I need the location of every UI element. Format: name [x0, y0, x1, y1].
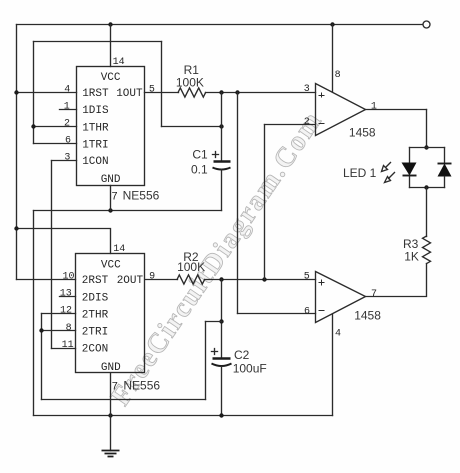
wire LED bridge top rail [410, 147, 445, 149]
wire C1 branch vertical [221, 93, 223, 162]
node junction top rail to U1 pin14 [108, 22, 112, 26]
svg-text:4: 4 [335, 329, 341, 340]
svg-text:1458: 1458 [354, 309, 381, 323]
capacitor C1 [213, 162, 231, 170]
svg-text:10: 10 [63, 272, 75, 283]
svg-text:1458: 1458 [349, 126, 376, 140]
node junction R2 out C2 [219, 277, 223, 281]
wire R2 to op-amp pin5 [205, 279, 316, 281]
wire R3 to op-amp2 output [366, 264, 427, 297]
wire U1 pin5 1OUT to op-amp pin3 [145, 92, 179, 94]
svg-text:7: 7 [112, 382, 119, 394]
resistor R1 [178, 88, 206, 97]
wire CON net vertical [51, 161, 53, 349]
svg-text:GND: GND [101, 362, 121, 374]
wire op-amp1 inverting drop [264, 125, 266, 280]
svg-text:4: 4 [64, 84, 70, 95]
svg-text:NE556: NE556 [123, 379, 160, 393]
wire C2 bottom to ground bus [221, 367, 223, 416]
resistor R2 [177, 275, 205, 284]
wire ground bus bottom [34, 415, 333, 417]
wire U2 pin12 2THR [42, 313, 76, 315]
wire feedback loop top [34, 41, 162, 43]
node junction left rail U2 vcc [14, 226, 18, 230]
LED arrow lower [385, 173, 395, 183]
wire C2 branch vertical [221, 280, 223, 358]
wire feedback loop to C1 node [162, 126, 222, 128]
wire U1 pin14 drop [110, 25, 112, 67]
svg-text:2DIS: 2DIS [82, 292, 109, 304]
svg-text:1THR: 1THR [82, 122, 109, 134]
wire THR-TRI tie vertical [33, 42, 35, 144]
polarity plus C2 [212, 349, 218, 355]
svg-text:GND: GND [101, 174, 121, 186]
capacitor C2 [212, 359, 232, 367]
svg-text:7: 7 [111, 191, 118, 203]
wire LED bridge bottom rail [410, 187, 445, 189]
terminal supply open circle [423, 21, 430, 28]
wire comparator sense drop [237, 93, 239, 314]
node junction ground symbol [108, 413, 112, 417]
svg-text:9: 9 [149, 272, 155, 283]
node junction R1 out C1 [219, 90, 223, 94]
svg-text:2: 2 [304, 117, 310, 128]
svg-text:NE556: NE556 [123, 188, 160, 202]
svg-text:8: 8 [66, 323, 72, 334]
wire op-amp2 pin6 [238, 313, 316, 315]
IC U2 NE556 box [76, 254, 145, 373]
node junction top rail to op-amp pin8 [330, 22, 334, 26]
wire U1 pin6 1TRI [34, 143, 77, 145]
svg-text:3: 3 [64, 152, 70, 163]
node junction op-amp1 inverting [262, 277, 266, 281]
wire C1 bottom to ground bus [221, 170, 223, 211]
wire THR loop vertical [205, 322, 207, 400]
svg-text:100K: 100K [176, 76, 204, 90]
LED D1 left (cathode down) [402, 148, 417, 188]
plus sign op-amp1 [319, 93, 325, 98]
plus sign op-amp2 [319, 280, 325, 286]
svg-text:100uF: 100uF [233, 362, 267, 376]
svg-text:8: 8 [335, 70, 341, 81]
svg-text:3: 3 [304, 84, 310, 95]
svg-text:13: 13 [60, 289, 72, 300]
wire left VCC rail [16, 25, 18, 280]
wire op-amp1 output [366, 109, 427, 111]
wire VCC to U2 pin14 [17, 229, 111, 254]
wire U2 pin7 GND drop [110, 374, 112, 416]
polarity plus C1 [213, 152, 219, 158]
wire THR loop bottom [42, 399, 206, 401]
svg-text:1TRI: 1TRI [82, 139, 108, 151]
wire op-amp2 pin4 to ground [332, 315, 334, 416]
wire top VCC rail [17, 24, 423, 26]
wire THR loop horizontal [206, 321, 222, 323]
wire R1 to op-amp pin3 [206, 92, 316, 94]
wire U2 pin9 2OUT to op-amp pin5 [146, 279, 178, 281]
wire THR-TRI tie vertical U2 [41, 314, 43, 400]
node junction LED bridge bottom [424, 185, 428, 189]
svg-text:1K: 1K [404, 249, 419, 263]
wire U2 pin10 2RST to left rail [17, 279, 76, 281]
resistor R3 [423, 236, 431, 264]
node junction left rail pin4 [14, 90, 18, 94]
wire U1 pin4 1RST to left rail [17, 92, 77, 94]
svg-text:1: 1 [64, 101, 70, 112]
svg-text:C1: C1 [192, 147, 208, 161]
svg-text:6: 6 [304, 306, 310, 317]
svg-text:2OUT: 2OUT [117, 275, 144, 287]
minus sign op-amp2 [319, 310, 325, 312]
node junction C2 top loop [219, 319, 223, 323]
ground [102, 416, 120, 457]
wire U2 pin13 2DIS stub [60, 296, 76, 298]
LED D2 right (cathode up) [438, 148, 452, 188]
node junction comparator sense [235, 90, 239, 94]
node junction C2 bottom [219, 413, 223, 417]
svg-text:1OUT: 1OUT [116, 88, 143, 100]
node junction C1 top [219, 124, 223, 128]
wire U1 pin7 GND drop [110, 186, 112, 211]
svg-text:6: 6 [65, 136, 71, 147]
svg-text:2TRI: 2TRI [82, 327, 108, 339]
svg-text:11: 11 [62, 340, 74, 351]
svg-text:2CON: 2CON [82, 344, 108, 356]
svg-text:1RST: 1RST [82, 88, 109, 100]
IC U1 NE556 box [77, 67, 145, 186]
wire ground bus left vertical [33, 211, 35, 416]
node junction pin2 tie [31, 124, 35, 128]
svg-text:VCC: VCC [101, 72, 121, 84]
wire op-amp1 pin2 [265, 124, 316, 126]
svg-text:100K: 100K [177, 260, 205, 274]
svg-text:LED 1: LED 1 [343, 166, 377, 180]
svg-text:2RST: 2RST [82, 275, 109, 287]
wire feedback loop right vertical [161, 42, 163, 127]
svg-text:C2: C2 [234, 348, 250, 362]
wire U2 pin11 2CON [52, 348, 76, 350]
svg-text:5: 5 [304, 272, 310, 283]
svg-text:2THR: 2THR [82, 309, 109, 321]
svg-text:1DIS: 1DIS [82, 105, 109, 117]
svg-text:VCC: VCC [101, 260, 121, 272]
LED arrow upper [382, 163, 391, 172]
wire U2 pin8 2TRI [42, 330, 76, 332]
wire U1 pin3 1CON [52, 160, 77, 162]
wire ground bus upper [34, 210, 222, 212]
op-amp U3A 1458 [316, 84, 366, 136]
wire LED to R3 [426, 188, 428, 237]
svg-text:2: 2 [64, 119, 70, 130]
node junction U1 GND [108, 208, 112, 212]
svg-text:1: 1 [371, 101, 377, 112]
svg-text:0.1: 0.1 [191, 163, 208, 177]
wire U1 pin2 1THR [34, 126, 77, 128]
svg-text:7: 7 [371, 289, 377, 300]
svg-text:5: 5 [149, 85, 155, 96]
wire U1 pin1 1DIS stub [60, 109, 77, 111]
op-amp U3B 1458 [316, 272, 366, 323]
node junction LED bridge top [424, 145, 428, 149]
minus sign op-amp1 [319, 123, 325, 125]
svg-text:1CON: 1CON [82, 156, 108, 168]
wire op-amp U3A pin 8 [332, 25, 334, 92]
wire output to LED bridge [426, 110, 428, 148]
node junction pin8 tie [39, 328, 43, 332]
svg-text:12: 12 [60, 306, 72, 317]
